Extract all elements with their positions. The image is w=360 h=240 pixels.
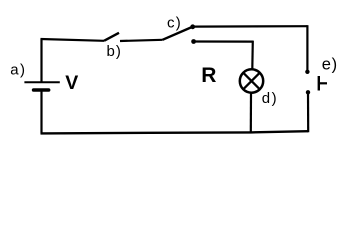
switch S1 blade (b): [104, 33, 119, 41]
svg-text:a): a): [10, 61, 26, 78]
wire: left vertical from top rail down to battery top plate: [40, 39, 42, 83]
wire: lamp branch horizontal from tap to corner above lamp: [194, 40, 253, 42]
node: switch c upper contact dot: [190, 24, 195, 29]
battery V negative plate (short thick): [34, 88, 49, 92]
wire: from lamp bottom to bottom rail: [250, 93, 252, 133]
node: switch e top contact dot: [305, 70, 309, 74]
svg-text:R: R: [201, 64, 216, 87]
switch S2 blade (c): [163, 27, 193, 40]
switch S3 push-button bar (e): [318, 76, 320, 91]
switch S3 push-button actuator tick: [319, 82, 327, 84]
battery V positive plate (long): [24, 81, 59, 83]
wire: top rail from switch c contact to top-right corner: [193, 25, 308, 28]
svg-text:c): c): [167, 15, 182, 32]
wire: bottom rail: [41, 131, 309, 133]
lamp (d) cross stroke 2: [243, 73, 260, 90]
wire: top rail from left corner to switch b: [41, 39, 105, 41]
svg-text:b): b): [107, 43, 122, 60]
node: switch e bottom contact dot: [306, 90, 310, 94]
svg-text:V: V: [65, 72, 78, 94]
svg-text:d): d): [262, 90, 278, 107]
lamp (d) cross stroke 1: [243, 73, 260, 90]
node: lamp branch tap dot on switch c lower contact: [191, 39, 196, 44]
lamp (d) circle: [240, 69, 263, 92]
wire: lamp branch vertical down to lamp top: [251, 41, 254, 69]
svg-text:e): e): [322, 56, 338, 74]
wire: right vertical from switch e bottom contact to bottom rail: [307, 92, 309, 132]
wire: right vertical from top-right corner down to switch e top contact: [306, 25, 308, 71]
wire: left vertical from battery bottom plate to bottom rail: [40, 91, 42, 134]
wire: top rail between switch b and switch c: [120, 40, 163, 41]
